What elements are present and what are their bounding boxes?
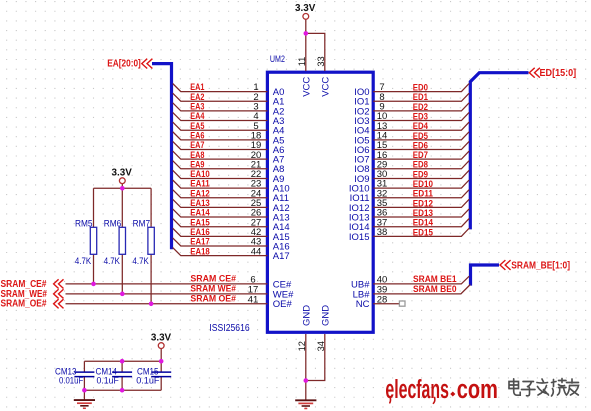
svg-text:SRAM_OE#: SRAM_OE#	[1, 299, 48, 310]
svg-text:ISSI25616: ISSI25616	[209, 323, 250, 334]
svg-text:4.7K: 4.7K	[104, 256, 121, 267]
svg-text:VCC: VCC	[321, 77, 332, 97]
svg-text:SRAM_BE[1:0]: SRAM_BE[1:0]	[511, 261, 570, 272]
svg-text:RM6: RM6	[104, 218, 122, 229]
svg-text:0.1uF: 0.1uF	[136, 376, 159, 387]
svg-text:33: 33	[316, 56, 326, 66]
svg-text:IO15: IO15	[349, 232, 370, 243]
svg-text:ED15: ED15	[413, 227, 434, 238]
svg-text:3.3V: 3.3V	[151, 333, 172, 344]
svg-text:UM2: UM2	[270, 54, 285, 65]
svg-text:A17: A17	[273, 251, 290, 262]
svg-text:11: 11	[297, 57, 307, 67]
svg-text:com: com	[457, 376, 498, 404]
svg-text:GND: GND	[302, 305, 313, 326]
svg-text:0.01uF: 0.01uF	[59, 376, 83, 387]
svg-text:VCC: VCC	[302, 77, 313, 97]
svg-text:elecfans: elecfans	[385, 376, 449, 404]
svg-text:3.3V: 3.3V	[295, 3, 316, 14]
svg-text:ED[15:0]: ED[15:0]	[540, 68, 577, 79]
svg-text:34: 34	[316, 341, 326, 351]
svg-text:12: 12	[297, 341, 307, 351]
svg-text:4.7K: 4.7K	[133, 256, 150, 267]
svg-text:4.7K: 4.7K	[75, 256, 92, 267]
svg-text:EA18: EA18	[190, 246, 209, 257]
svg-text:28: 28	[377, 294, 388, 305]
svg-text:RM5: RM5	[75, 218, 93, 229]
svg-text:GND: GND	[321, 305, 332, 326]
svg-text:44: 44	[251, 246, 262, 257]
svg-text:41: 41	[248, 294, 259, 305]
svg-text:OE#: OE#	[273, 299, 293, 310]
svg-text:RM7: RM7	[133, 218, 151, 229]
svg-text:NC: NC	[356, 299, 370, 310]
svg-text:EA[20:0]: EA[20:0]	[107, 59, 141, 70]
svg-text:SRAM BE0: SRAM BE0	[413, 284, 457, 295]
svg-text:SRAM OE#: SRAM OE#	[190, 293, 236, 304]
svg-text:3.3V: 3.3V	[112, 167, 133, 178]
svg-text:38: 38	[377, 227, 388, 238]
svg-text:0.1uF: 0.1uF	[97, 376, 119, 387]
